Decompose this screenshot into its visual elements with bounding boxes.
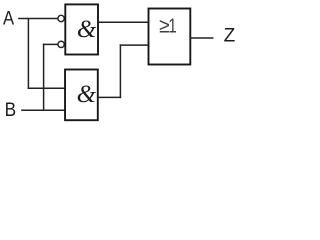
wire U2 output horizontal (98, 96, 121, 98)
wire riser horizontal to OR input 2 (120, 44, 149, 46)
wire B branch vertical (43, 44, 45, 111)
wire A branch horizontal to AND2 input 1 (28, 87, 65, 89)
AND gate U2 body (65, 70, 98, 121)
inverter bubble U1 input 2 (58, 41, 64, 47)
wire A branch vertical (27, 19, 29, 90)
wire B branch stub to U1 inverted input 2 (43, 43, 58, 45)
wire U2 output riser vertical (119, 44, 121, 98)
svg-text:Z: Z (224, 26, 236, 47)
svg-text:1: 1 (168, 15, 176, 37)
wire Z output (190, 37, 213, 39)
wire B input to AND2 input 2 (21, 109, 65, 111)
svg-text:&: & (77, 81, 97, 108)
wire A input (18, 18, 58, 20)
OR gate U3 body (149, 9, 191, 65)
svg-text:&: & (77, 16, 97, 43)
wire U1 output to OR input 1 (98, 21, 149, 23)
svg-text:B: B (5, 100, 17, 121)
inverter bubble U1 input 1 (58, 15, 64, 21)
svg-text:A: A (3, 9, 14, 30)
AND gate U1 body (65, 4, 98, 54)
